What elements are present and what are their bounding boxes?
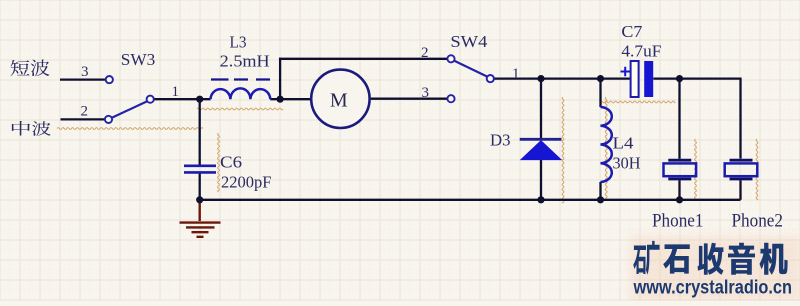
wire: riser from L3 node up: [279, 58, 281, 99]
switch SW4 contact pin 3: [447, 95, 454, 102]
wire: node 1 down to C6: [199, 99, 201, 165]
svg-text:SW3: SW3: [121, 50, 156, 69]
squiggle marker under wire 2 net: [57, 128, 203, 130]
svg-text:www.crystalradio.cn: www.crystalradio.cn: [633, 278, 792, 299]
svg-text:2200pF: 2200pF: [221, 173, 272, 192]
svg-text:2: 2: [421, 45, 429, 61]
squiggle marker beside Phone2: [756, 139, 758, 200]
squiggle marker beside C6: [218, 133, 220, 192]
wire: SW3 common to node 1 junction: [154, 98, 211, 100]
diode D3 body: [521, 141, 561, 160]
wire: pin 3 of SW3 (short-wave input): [60, 78, 106, 80]
watermark text 矿石收音机: [633, 241, 787, 275]
squiggle marker beside Phone1: [695, 139, 697, 200]
motor M (detector head): [311, 70, 369, 128]
capacitor C7 negative plate: [644, 61, 653, 97]
earphone Phone2 top plate: [730, 159, 753, 162]
wire: Phone2 bottom to ground bus: [739, 180, 741, 200]
wire: D3 anode down to ground bus: [540, 160, 542, 200]
switch SW3 contact pin 2: [105, 116, 112, 123]
svg-text:3: 3: [81, 64, 89, 80]
wire: ground bus: [200, 199, 741, 201]
squiggle marker under C7 wire: [600, 101, 675, 103]
switch SW4 arm: [454, 61, 488, 77]
net label 中波 (medium wave): [12, 121, 30, 136]
earphone Phone2 crystal body: [725, 163, 758, 176]
wire: M motor to SW4 pin 3: [370, 98, 447, 100]
ground symbol: [180, 200, 221, 237]
svg-text:C7: C7: [621, 22, 642, 41]
switch SW3 pole pin 1: [147, 96, 154, 103]
ground junction at C6: [196, 196, 203, 203]
earphone Phone1 crystal body: [664, 163, 697, 176]
wire: Phone1 bottom to ground bus: [678, 180, 680, 200]
wire: L3 right to node and M motor: [270, 98, 311, 100]
squiggle marker beside L4: [605, 97, 607, 200]
junction C7 / L4: [597, 75, 604, 82]
earphone Phone1 bottom plate: [668, 178, 691, 181]
earphone Phone1 top plate: [668, 159, 691, 162]
ground junction at L4: [597, 196, 604, 203]
svg-text:D3: D3: [490, 130, 511, 149]
svg-text:1: 1: [512, 66, 520, 82]
wire: node down to Phone1: [678, 79, 680, 159]
svg-text:4.7uF: 4.7uF: [621, 41, 661, 60]
svg-text:2.5mH: 2.5mH: [220, 51, 270, 70]
node 1 junction (SW3/L3/C6): [196, 96, 203, 103]
svg-text:L4: L4: [613, 133, 634, 152]
svg-text:L3: L3: [230, 32, 247, 51]
inductor L3 core dashes: [211, 78, 270, 80]
capacitor C7 plus sign: [621, 67, 631, 76]
squiggle marker under node 1 wire: [197, 108, 283, 110]
capacitor C7 positive plate: [631, 61, 639, 97]
ground junction at Phone1: [676, 196, 683, 203]
svg-text:30H: 30H: [613, 153, 641, 172]
wire: top run to SW4 pin 2: [279, 58, 447, 60]
earphone Phone2 bottom plate: [730, 178, 753, 181]
wire: C7 to output corner: [653, 79, 740, 159]
switch SW4 contact pin 2: [447, 55, 454, 62]
switch SW4 pole pin 1: [487, 75, 494, 82]
diode D3 cathode bar: [520, 138, 562, 141]
inductor L4: [601, 107, 612, 182]
wire: SW4 common node 1 run to C7: [494, 77, 630, 79]
inductor L3: [211, 88, 271, 99]
switch SW3 contact pin 3: [106, 76, 113, 83]
svg-text:M: M: [330, 90, 348, 112]
junction SW4 out / D3: [537, 75, 544, 82]
junction L3-M-riser: [277, 96, 284, 103]
svg-text:Phone2: Phone2: [732, 211, 784, 231]
squiggle marker beside D3: [562, 97, 564, 203]
svg-text:SW4: SW4: [450, 32, 487, 51]
svg-text:C6: C6: [220, 153, 242, 172]
wire: node down to L4: [599, 79, 601, 107]
net label 短波 (short wave): [11, 60, 30, 76]
wire: node down to D3 cathode: [540, 79, 542, 139]
capacitor C6: [184, 166, 216, 173]
svg-text:1: 1: [172, 84, 180, 100]
ground junction at D3: [537, 196, 544, 203]
junction C7 out / Phone1: [676, 75, 683, 82]
svg-text:3: 3: [422, 85, 430, 101]
svg-text:2: 2: [81, 104, 89, 120]
wire: pin 2 of SW3 (medium-wave input): [61, 118, 105, 120]
switch SW3 arm: [112, 101, 148, 118]
svg-text:Phone1: Phone1: [652, 211, 704, 231]
wire: L4 bottom to ground bus: [599, 182, 601, 200]
wire: C6 bottom to ground junction: [199, 173, 201, 200]
